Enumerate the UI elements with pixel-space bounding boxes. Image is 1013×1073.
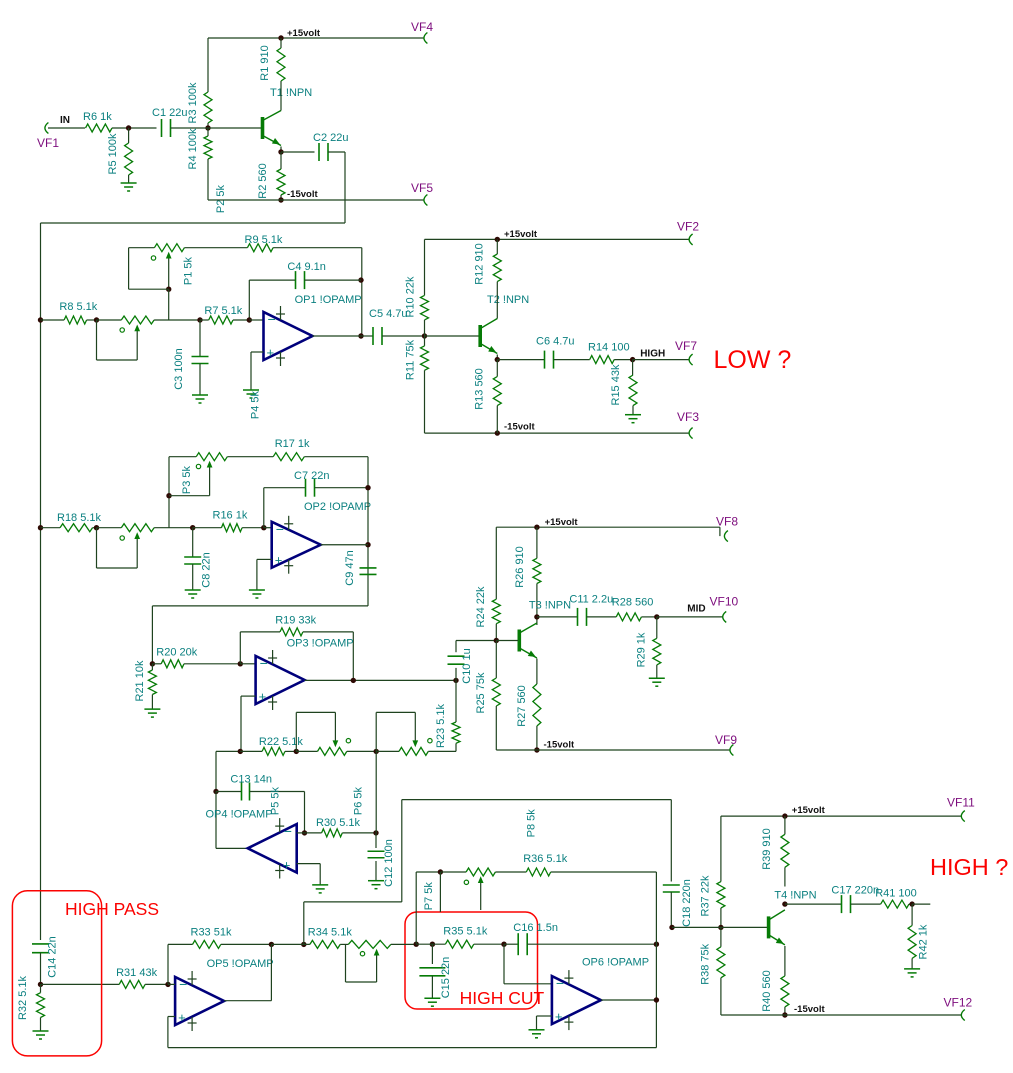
- svg-text:+15volt: +15volt: [545, 517, 579, 528]
- svg-text:R21 10k: R21 10k: [134, 660, 146, 701]
- svg-text:R20 20k: R20 20k: [156, 646, 197, 658]
- svg-text:R36 5.1k: R36 5.1k: [523, 853, 568, 865]
- svg-text:C8 22n: C8 22n: [201, 552, 213, 587]
- svg-text:-15volt: -15volt: [794, 1004, 825, 1015]
- svg-text:MID: MID: [687, 604, 705, 615]
- svg-text:−: −: [260, 655, 268, 671]
- svg-text:T2 !NPN: T2 !NPN: [487, 294, 529, 306]
- svg-text:R3 100k: R3 100k: [187, 82, 199, 123]
- svg-text:R26 910: R26 910: [514, 546, 526, 588]
- svg-text:C7 22n: C7 22n: [294, 470, 329, 482]
- svg-text:C5 4.7u: C5 4.7u: [369, 308, 408, 320]
- svg-text:+: +: [259, 689, 267, 704]
- svg-text:−: −: [268, 311, 276, 327]
- svg-text:R39 910: R39 910: [761, 828, 773, 870]
- svg-text:R5 100k: R5 100k: [107, 133, 119, 174]
- svg-text:HIGH ?: HIGH ?: [930, 854, 1008, 880]
- svg-text:C1 22u: C1 22u: [152, 107, 187, 119]
- svg-text:R6 1k: R6 1k: [83, 111, 112, 123]
- svg-text:R28 560: R28 560: [612, 597, 654, 609]
- svg-text:HIGH CUT: HIGH CUT: [460, 988, 545, 1008]
- svg-text:R38 75k: R38 75k: [699, 943, 711, 984]
- svg-text:R19 33k: R19 33k: [275, 615, 316, 627]
- svg-text:VF8: VF8: [716, 515, 738, 529]
- svg-text:R15 43k: R15 43k: [610, 364, 622, 405]
- svg-text:OP1 !OPAMP: OP1 !OPAMP: [295, 294, 362, 306]
- svg-text:C10 1u: C10 1u: [461, 648, 473, 683]
- svg-text:T3 !NPN: T3 !NPN: [529, 600, 571, 612]
- svg-text:C16 1.5n: C16 1.5n: [513, 922, 558, 934]
- svg-text:R40 560: R40 560: [761, 970, 773, 1012]
- svg-text:VF12: VF12: [944, 996, 973, 1010]
- svg-text:+: +: [275, 553, 283, 568]
- svg-text:+15volt: +15volt: [792, 805, 826, 816]
- svg-text:R34 5.1k: R34 5.1k: [308, 927, 353, 939]
- svg-text:P7 5k: P7 5k: [423, 882, 435, 911]
- svg-text:−: −: [284, 823, 292, 839]
- svg-text:+: +: [267, 345, 275, 360]
- svg-text:LOW ?: LOW ?: [714, 346, 792, 374]
- svg-text:R10 22k: R10 22k: [405, 276, 417, 317]
- svg-text:R4 100k: R4 100k: [187, 128, 199, 169]
- svg-text:C11 2.2u: C11 2.2u: [569, 594, 613, 606]
- svg-text:R18 5.1k: R18 5.1k: [57, 512, 102, 524]
- svg-text:+: +: [178, 1010, 186, 1025]
- svg-text:-15volt: -15volt: [287, 189, 318, 200]
- svg-text:R35 5.1k: R35 5.1k: [443, 926, 488, 938]
- svg-text:C17 220n: C17 220n: [831, 884, 879, 896]
- svg-text:VF7: VF7: [675, 339, 697, 353]
- svg-text:R27 560: R27 560: [516, 685, 528, 727]
- svg-text:VF2: VF2: [677, 220, 699, 234]
- svg-text:R16 1k: R16 1k: [213, 510, 248, 522]
- svg-text:OP4 !OPAMP: OP4 !OPAMP: [206, 809, 273, 821]
- svg-text:OP2 !OPAMP: OP2 !OPAMP: [304, 501, 371, 513]
- svg-text:R30 5.1k: R30 5.1k: [316, 817, 361, 829]
- svg-text:R17 1k: R17 1k: [275, 438, 310, 450]
- svg-text:P8 5k: P8 5k: [525, 809, 537, 838]
- svg-text:R25 75k: R25 75k: [475, 672, 487, 713]
- svg-text:C12 100n: C12 100n: [383, 839, 395, 887]
- svg-text:R2 560: R2 560: [257, 163, 269, 198]
- svg-text:R24 22k: R24 22k: [475, 586, 487, 627]
- svg-text:VF10: VF10: [710, 595, 739, 609]
- svg-text:R13 560: R13 560: [474, 368, 486, 410]
- svg-text:C15 22n: C15 22n: [440, 957, 452, 999]
- svg-text:IN: IN: [60, 115, 70, 126]
- svg-text:HIGH: HIGH: [640, 349, 665, 360]
- svg-text:P6 5k: P6 5k: [353, 786, 365, 815]
- svg-text:VF3: VF3: [677, 410, 699, 424]
- svg-text:OP5 !OPAMP: OP5 !OPAMP: [207, 958, 274, 970]
- svg-text:C3 100n: C3 100n: [173, 348, 185, 390]
- svg-text:P3 5k: P3 5k: [181, 465, 193, 494]
- svg-text:VF11: VF11: [947, 795, 975, 809]
- svg-text:C9 47n: C9 47n: [344, 550, 356, 585]
- svg-text:R33 51k: R33 51k: [191, 927, 232, 939]
- svg-text:C13 14n: C13 14n: [230, 774, 272, 786]
- svg-text:R9 5.1k: R9 5.1k: [245, 234, 283, 246]
- svg-text:VF4: VF4: [411, 20, 433, 34]
- svg-text:R14 100: R14 100: [588, 341, 630, 353]
- svg-text:T1 !NPN: T1 !NPN: [270, 87, 312, 99]
- svg-text:R42 1k: R42 1k: [918, 924, 930, 959]
- svg-text:R1 910: R1 910: [259, 45, 271, 80]
- svg-text:C2 22u: C2 22u: [313, 132, 348, 144]
- svg-text:VF1: VF1: [37, 136, 59, 150]
- svg-text:−: −: [556, 975, 564, 991]
- svg-text:OP3 !OPAMP: OP3 !OPAMP: [287, 637, 354, 649]
- svg-text:R23 5.1k: R23 5.1k: [435, 703, 447, 748]
- svg-text:P4 5k: P4 5k: [250, 390, 262, 419]
- svg-text:R41 100: R41 100: [875, 887, 917, 899]
- svg-text:T4 !NPN: T4 !NPN: [774, 889, 816, 901]
- svg-text:R8 5.1k: R8 5.1k: [59, 301, 97, 313]
- svg-text:+15volt: +15volt: [504, 229, 538, 240]
- svg-text:HIGH PASS: HIGH PASS: [65, 899, 159, 919]
- svg-text:C6 4.7u: C6 4.7u: [536, 335, 575, 347]
- svg-text:+: +: [283, 858, 291, 873]
- svg-text:VF9: VF9: [715, 733, 737, 747]
- svg-text:C18 220n: C18 220n: [681, 879, 693, 927]
- svg-text:-15volt: -15volt: [544, 740, 575, 751]
- svg-text:C14 22n: C14 22n: [47, 936, 59, 978]
- svg-text:R32 5.1k: R32 5.1k: [17, 975, 29, 1020]
- svg-text:+15volt: +15volt: [287, 28, 321, 39]
- svg-text:R12 910: R12 910: [474, 243, 486, 285]
- svg-text:R29 1k: R29 1k: [635, 632, 647, 667]
- svg-text:P2 5k: P2 5k: [215, 184, 227, 213]
- svg-text:R37 22k: R37 22k: [699, 875, 711, 916]
- svg-text:VF5: VF5: [411, 181, 433, 195]
- svg-text:OP6 !OPAMP: OP6 !OPAMP: [582, 957, 649, 969]
- svg-text:-15volt: -15volt: [504, 422, 535, 433]
- svg-text:R7 5.1k: R7 5.1k: [204, 305, 242, 317]
- svg-text:−: −: [276, 521, 284, 537]
- svg-text:C4 9.1n: C4 9.1n: [287, 261, 326, 273]
- svg-text:+: +: [555, 1009, 563, 1024]
- svg-text:P1 5k: P1 5k: [183, 256, 195, 285]
- svg-text:−: −: [179, 976, 187, 992]
- svg-text:R11 75k: R11 75k: [405, 339, 417, 380]
- svg-text:R31 43k: R31 43k: [116, 967, 157, 979]
